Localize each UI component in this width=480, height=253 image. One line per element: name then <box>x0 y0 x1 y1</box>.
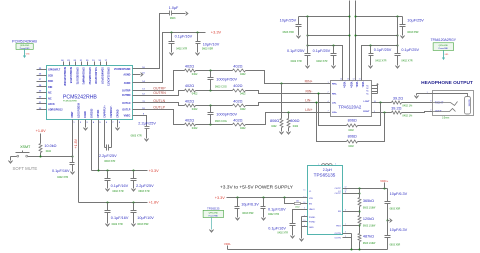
svg-text:402Ω: 402Ω <box>233 84 242 88</box>
svg-text:LIN-: LIN- <box>305 99 311 103</box>
svg-text:CPGND: CPGND <box>117 109 119 118</box>
svg-text:LEFT: LEFT <box>435 109 442 113</box>
svg-text:10µF/6.3V: 10µF/6.3V <box>241 202 259 206</box>
svg-text:+3.3V: +3.3V <box>211 30 222 35</box>
svg-text:SCL/MC/GPIO8: SCL/MC/GPIO8 <box>94 67 96 84</box>
svg-text:CAPM/FLY-: CAPM/FLY- <box>110 105 113 117</box>
svg-text:0402: 0402 <box>240 73 246 76</box>
svg-text:806Ω: 806Ω <box>348 119 357 123</box>
svg-text:OUTLP: OUTLP <box>153 106 165 110</box>
svg-text:PowerPAD: PowerPAD <box>208 215 218 218</box>
svg-text:0402 X7R: 0402 X7R <box>401 59 412 62</box>
svg-text:QFN-GND: QFN-GND <box>20 45 30 47</box>
svg-text:QFN-GND: QFN-GND <box>209 212 219 214</box>
svg-text:0.1µF/16V: 0.1µF/16V <box>175 34 193 38</box>
svg-text:11: 11 <box>359 78 361 80</box>
svg-text:OUTP: OUTP <box>335 193 342 195</box>
svg-text:ROUT: ROUT <box>363 111 370 113</box>
svg-text:2: 2 <box>430 109 431 111</box>
svg-text:OUTN: OUTN <box>334 237 341 239</box>
svg-text:RIN-: RIN- <box>306 89 313 93</box>
svg-text:PowerPAD: PowerPAD <box>438 47 448 50</box>
svg-text:DVDD33: DVDD33 <box>91 108 93 118</box>
svg-text:12: 12 <box>353 78 355 80</box>
svg-text:402Ω: 402Ω <box>185 118 194 122</box>
svg-text:VDD+: VDD+ <box>350 82 353 89</box>
svg-text:13: 13 <box>347 78 349 80</box>
svg-text:VNEG: VNEG <box>124 114 131 117</box>
svg-text:2.2µF/25V: 2.2µF/25V <box>99 154 117 158</box>
svg-text:806Ω: 806Ω <box>348 134 357 138</box>
svg-text:0402: 0402 <box>348 129 354 132</box>
svg-text:TPS65135: TPS65135 <box>207 206 220 210</box>
svg-text:402Ω: 402Ω <box>185 100 194 104</box>
svg-text:402Ω: 402Ω <box>233 100 242 104</box>
svg-text:OUTRN: OUTRN <box>153 91 166 95</box>
svg-text:GPIO3/HPAMP2: GPIO3/HPAMP2 <box>82 67 85 85</box>
svg-text:0402 X7R: 0402 X7R <box>268 213 279 216</box>
svg-text:OUTP: OUTP <box>335 188 342 190</box>
svg-text:OUTRP: OUTRP <box>153 86 166 90</box>
svg-text:402Ω: 402Ω <box>185 84 194 88</box>
svg-text:CAPP/FLY+: CAPP/FLY+ <box>103 105 106 118</box>
svg-text:OUTRN: OUTRN <box>122 94 131 97</box>
svg-text:+1.8V: +1.8V <box>74 138 78 148</box>
svg-text:0402: 0402 <box>192 127 198 130</box>
svg-text:0603 X7R: 0603 X7R <box>138 190 149 193</box>
svg-text:0.1µF/16V: 0.1µF/16V <box>268 208 286 212</box>
svg-text:0402: 0402 <box>293 125 299 128</box>
svg-text:10µF/10V: 10µF/10V <box>137 216 154 220</box>
svg-text:0603 COG: 0603 COG <box>215 86 227 89</box>
svg-text:0402: 0402 <box>348 145 354 148</box>
svg-text:0.1µF/16V: 0.1µF/16V <box>268 227 286 231</box>
svg-text:MODE2/GPIO6/M: MODE2/GPIO6/M <box>63 67 65 85</box>
svg-text:402Ω: 402Ω <box>233 118 242 122</box>
svg-text:SOFT MUTE: SOFT MUTE <box>13 166 38 171</box>
svg-text:0402 1%: 0402 1% <box>402 115 413 118</box>
svg-text:OUTLN: OUTLN <box>122 102 131 105</box>
svg-text:0402 X7R: 0402 X7R <box>291 60 302 63</box>
svg-text:2.2µF/25V: 2.2µF/25V <box>136 184 154 188</box>
svg-text:NC: NC <box>48 92 52 95</box>
svg-text:PGND: PGND <box>309 217 316 219</box>
svg-text:0402 1%: 0402 1% <box>402 105 413 108</box>
svg-text:120kΩ: 120kΩ <box>363 217 374 221</box>
svg-text:GPIO6/FLT: GPIO6/FLT <box>48 69 61 72</box>
svg-text:0603 X5R: 0603 X5R <box>137 223 148 226</box>
svg-text:0402: 0402 <box>240 93 246 96</box>
svg-text:2.2µH: 2.2µH <box>323 168 333 172</box>
svg-text:AVDD: AVDD <box>124 82 131 85</box>
svg-text:0402 X7R: 0402 X7R <box>277 231 288 234</box>
svg-text:14: 14 <box>340 78 342 80</box>
svg-text:TPA6120A2: TPA6120A2 <box>338 104 361 109</box>
svg-text:0603 1/16W: 0603 1/16W <box>363 226 376 228</box>
svg-text:GPIO2/SDOUT2: GPIO2/SDOUT2 <box>75 67 77 85</box>
svg-text:0402: 0402 <box>192 93 198 96</box>
svg-text:0603 X5R: 0603 X5R <box>390 207 401 210</box>
svg-text:806Ω: 806Ω <box>270 119 279 123</box>
svg-text:0402 X7R: 0402 X7R <box>112 223 123 226</box>
svg-text:MODE1/GPIO5: MODE1/GPIO5 <box>69 67 71 84</box>
svg-text:0402: 0402 <box>192 73 198 76</box>
svg-text:TPS65135: TPS65135 <box>314 172 336 177</box>
svg-text:+3.3V: +3.3V <box>215 196 225 200</box>
svg-text:0402 X7R: 0402 X7R <box>176 47 187 50</box>
svg-text:EN: EN <box>309 203 312 205</box>
svg-text:1000pF/50V: 1000pF/50V <box>216 78 237 82</box>
svg-text:0603 COG: 0603 COG <box>215 120 227 123</box>
svg-text:10µF/25V: 10µF/25V <box>407 19 424 23</box>
svg-text:SCK: SCK <box>48 74 53 77</box>
svg-text:PCM5242RHB: PCM5242RHB <box>12 40 37 44</box>
svg-text:0402: 0402 <box>240 108 246 111</box>
svg-text:LIN-: LIN- <box>332 103 337 105</box>
svg-text:39.2Ω: 39.2Ω <box>393 96 403 100</box>
svg-text:CPVDD: CPVDD <box>98 109 100 117</box>
svg-text:0.1µF/25V: 0.1µF/25V <box>401 48 419 52</box>
svg-text:VDD+: VDD+ <box>343 82 346 89</box>
svg-text:0603 X5R: 0603 X5R <box>242 212 253 215</box>
svg-text:10µF/25V: 10µF/25V <box>280 19 297 23</box>
svg-text:365kΩ: 365kΩ <box>363 199 374 203</box>
svg-text:DGND: DGND <box>85 111 87 118</box>
svg-text:0.1µF/16V: 0.1µF/16V <box>111 216 129 220</box>
svg-text:3: 3 <box>430 101 431 103</box>
svg-text:0.1µF/25V: 0.1µF/25V <box>287 49 305 53</box>
svg-text:0.1µF/25V: 0.1µF/25V <box>313 49 331 53</box>
svg-text:1.0µF: 1.0µF <box>169 6 179 10</box>
svg-text:XSMT: XSMT <box>72 111 74 118</box>
svg-text:PCM5242RHB: PCM5242RHB <box>63 101 77 103</box>
svg-text:RIN+: RIN+ <box>305 80 313 84</box>
svg-text:+3.3V: +3.3V <box>149 169 159 173</box>
svg-text:VDD-: VDD- <box>355 82 358 88</box>
svg-text:AGND: AGND <box>123 73 130 76</box>
svg-text:XSMT: XSMT <box>20 145 31 149</box>
svg-text:402Ω: 402Ω <box>185 65 194 69</box>
svg-text:0402: 0402 <box>46 150 52 153</box>
svg-text:0402 X7R: 0402 X7R <box>112 190 123 193</box>
svg-text:402Ω: 402Ω <box>233 65 242 69</box>
svg-text:0402: 0402 <box>240 127 246 130</box>
svg-text:1: 1 <box>318 164 319 166</box>
svg-text:806Ω: 806Ω <box>290 119 299 123</box>
svg-text:15: 15 <box>303 190 305 192</box>
svg-text:0603: 0603 <box>170 17 176 20</box>
svg-text:RIN+: RIN+ <box>332 84 338 86</box>
svg-text:0.1µF/16V: 0.1µF/16V <box>52 169 70 173</box>
svg-text:GPIO4/AMUTE2: GPIO4/AMUTE2 <box>88 67 91 85</box>
svg-text:0603 1/16W: 0603 1/16W <box>363 243 376 245</box>
svg-text:+1.8V: +1.8V <box>149 200 159 204</box>
svg-text:FBG: FBG <box>336 226 341 228</box>
svg-text:VDD-: VDD- <box>361 82 364 88</box>
svg-text:VDD+: VDD+ <box>380 179 388 183</box>
svg-text:VIN: VIN <box>309 198 313 200</box>
svg-text:TPA6120A2RGY: TPA6120A2RGY <box>431 38 457 42</box>
svg-text:0603 X5R: 0603 X5R <box>407 31 418 34</box>
svg-text:VAUX: VAUX <box>309 208 315 211</box>
svg-text:VCOM/CPGND: VCOM/CPGND <box>114 68 131 71</box>
svg-text:0402 X7R: 0402 X7R <box>375 59 386 62</box>
svg-text:0402 X7R: 0402 X7R <box>316 60 327 63</box>
svg-text:LOUT: LOUT <box>364 101 371 103</box>
svg-text:GND: GND <box>309 227 314 229</box>
svg-text:QFN-GND: QFN-GND <box>439 45 449 47</box>
svg-text:BCK: BCK <box>48 80 53 83</box>
svg-text:LIN+: LIN+ <box>332 112 338 114</box>
svg-text:RIN-: RIN- <box>332 93 337 95</box>
svg-text:SLEEVE: SLEEVE <box>467 99 469 107</box>
svg-text:+3.3V to +5/-5V POWER SUPPLY: +3.3V to +5/-5V POWER SUPPLY <box>220 184 294 190</box>
svg-text:HEADPHONE OUTPUT: HEADPHONE OUTPUT <box>421 80 473 86</box>
svg-text:ADR/GPIO12: ADR/GPIO12 <box>48 109 63 112</box>
svg-text:3.5mm: 3.5mm <box>442 117 449 120</box>
svg-text:0603 1/16W: 0603 1/16W <box>363 208 376 210</box>
svg-text:0.1µF/25V: 0.1µF/25V <box>374 48 392 52</box>
svg-text:PGND: PGND <box>309 222 316 224</box>
svg-text:2: 2 <box>335 163 336 165</box>
svg-text:487kΩ: 487kΩ <box>363 235 374 239</box>
svg-text:0603 X7R: 0603 X7R <box>104 160 115 163</box>
svg-text:VDD-: VDD- <box>224 242 231 246</box>
svg-text:OUTRP: OUTRP <box>122 89 131 92</box>
svg-text:10µF/10V: 10µF/10V <box>203 42 220 46</box>
svg-text:10µF/6.3V: 10µF/6.3V <box>390 228 408 232</box>
svg-text:LRCK: LRCK <box>48 103 55 106</box>
svg-text:10µF/6.3V: 10µF/6.3V <box>390 192 408 196</box>
svg-text:0402: 0402 <box>271 125 277 128</box>
svg-text:DIN: DIN <box>48 86 52 89</box>
svg-text:0603 X7R: 0603 X7R <box>131 134 142 137</box>
svg-text:+1.8V: +1.8V <box>36 129 46 133</box>
svg-text:39.2Ω: 39.2Ω <box>391 106 401 110</box>
svg-text:OUTLP: OUTLP <box>122 109 131 112</box>
svg-text:0402 X7R: 0402 X7R <box>57 176 68 179</box>
svg-text:10.0kΩ: 10.0kΩ <box>44 144 56 148</box>
svg-text:0603 X5R: 0603 X5R <box>283 31 294 34</box>
svg-text:OUTN: OUTN <box>334 233 341 235</box>
svg-text:OUTLN: OUTLN <box>153 99 165 103</box>
svg-text:0603 X5R: 0603 X5R <box>390 244 401 247</box>
svg-text:2.2µF/25V: 2.2µF/25V <box>138 122 156 126</box>
svg-text:0402: 0402 <box>192 108 198 111</box>
svg-text:1000pF/50V: 1000pF/50V <box>216 112 237 116</box>
svg-text:LIN+: LIN+ <box>305 108 312 112</box>
svg-text:SDA/MS/GPIO7: SDA/MS/GPIO7 <box>100 67 103 84</box>
svg-text:GPIO1/CLKOUT2: GPIO1/CLKOUT2 <box>107 67 109 86</box>
svg-text:0.1µF/16V: 0.1µF/16V <box>111 184 129 188</box>
svg-text:LDOO/VDD18: LDOO/VDD18 <box>78 102 80 117</box>
svg-text:NC: NC <box>48 97 52 100</box>
svg-text:0603 X5R: 0603 X5R <box>202 47 213 50</box>
